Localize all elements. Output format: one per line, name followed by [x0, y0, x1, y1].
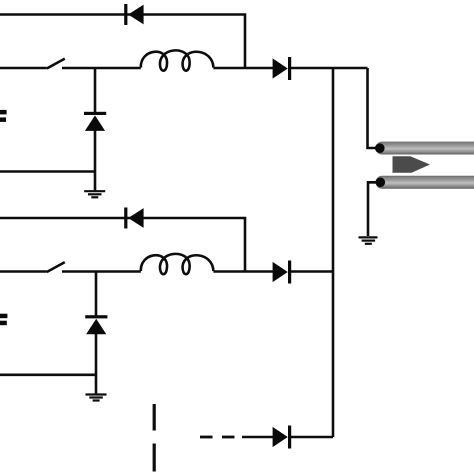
- diode D2 (stage-1 output, pointing right): [273, 57, 292, 80]
- diode D4 (freewheel, stage 2, pointing left): [124, 208, 143, 229]
- wire: stage-1 main line switch to inductor: [62, 67, 141, 70]
- wire: stub into bottom rail dot: [368, 181, 378, 184]
- node: bottom rail terminal dot: [376, 178, 386, 188]
- diode D1 (freewheel, stage 1, pointing left): [124, 4, 143, 25]
- wire: stage-1 inductor to diode D2: [213, 67, 273, 70]
- diode D6 (crowbar, stage 2, cathode up): [85, 315, 107, 334]
- armature (projectile) between rails: [393, 156, 431, 172]
- wire: n-th stage lead into diode D7: [242, 436, 273, 439]
- ground at rail return: [359, 237, 378, 243]
- wire: stage-1 capacitor bottom return: [0, 170, 95, 173]
- switch S2 blade: [47, 262, 65, 272]
- wire: crowbar diode bottom lead to ground, stage 1: [94, 131, 97, 191]
- wire: common output bus vertical: [332, 68, 335, 437]
- ground stage 2: [86, 395, 107, 401]
- diode D7 (n-th stage output, pointing right): [273, 426, 292, 449]
- wire: crowbar diode top lead stage 2: [95, 272, 98, 317]
- wire: feed down to top rail: [368, 68, 380, 148]
- capacitor C1 plates (clipped at left edge): [0, 110, 7, 122]
- wire: stage-1 main line left of switch: [0, 67, 47, 70]
- wire: stage-2 main line switch to inductor: [62, 270, 141, 273]
- wire: stage-2 output to bus: [291, 270, 333, 273]
- wire: stage-2 freewheel branch horizontal: [0, 218, 245, 272]
- ground stage 1: [84, 191, 105, 197]
- wire: stage-1 freewheel branch horizontal: [0, 15, 245, 69]
- rail: top railgun rail: [376, 142, 474, 155]
- diode D3 (crowbar, stage 1, cathode up): [84, 112, 106, 131]
- wire: bottom rail to ground: [368, 182, 380, 236]
- wire: crowbar diode bottom lead to ground, stage 2: [95, 334, 98, 394]
- inductor L1: [141, 50, 214, 70]
- dashed wire: further-stage vertical ellipsis: [153, 404, 156, 472]
- wire: stage-1 output to feed corner: [291, 67, 368, 70]
- wire: n-th stage output to bus: [291, 436, 333, 439]
- wire: crowbar diode top lead stage 1: [94, 68, 97, 113]
- diode D5 (stage-2 output, pointing right): [273, 261, 292, 284]
- wire: stage-2 inductor to diode D5: [213, 270, 273, 273]
- wire: stage-2 capacitor bottom return: [0, 373, 96, 376]
- capacitor C2 plates (clipped at left edge): [0, 314, 7, 326]
- switch S1 blade: [47, 59, 65, 69]
- wire: stage-2 main line left of switch: [0, 270, 47, 273]
- rail: bottom railgun rail: [376, 176, 474, 189]
- node: top rail terminal dot: [375, 143, 385, 153]
- inductor L2: [141, 254, 214, 274]
- dashed wire: further-stage horizontal ellipsis: [200, 436, 235, 439]
